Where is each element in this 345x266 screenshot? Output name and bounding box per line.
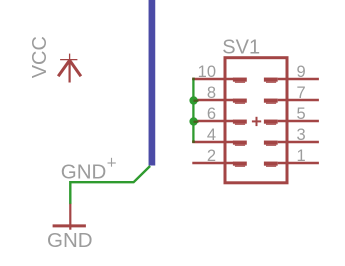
svg-text:VCC: VCC xyxy=(29,36,51,78)
pin 8 lead xyxy=(192,99,234,102)
wire GND net (from bus to ground) xyxy=(70,166,150,204)
ground symbol GND (pin) xyxy=(69,204,71,230)
svg-text:SV1: SV1 xyxy=(222,36,260,58)
pin 6 lead xyxy=(192,120,234,123)
svg-text:5: 5 xyxy=(297,105,306,123)
pin 9 pad xyxy=(264,78,278,82)
pin 1 lead xyxy=(278,162,319,165)
svg-text:10: 10 xyxy=(198,63,216,81)
wire-pin overlap corner (pin 10) xyxy=(192,78,195,81)
svg-text:8: 8 xyxy=(207,84,216,102)
svg-text:4: 4 xyxy=(207,126,216,144)
pin 5 pad xyxy=(264,120,278,124)
connector SV1 body xyxy=(225,58,287,183)
wire (green vertical tying pins 10-8-6-4) xyxy=(192,79,194,142)
net label origin cross xyxy=(108,158,116,167)
svg-text:9: 9 xyxy=(297,63,306,81)
junction dot (pin 8) xyxy=(189,96,197,104)
supply symbol VCC (arrow) xyxy=(58,54,81,83)
svg-text:GND: GND xyxy=(47,229,93,252)
svg-text:1: 1 xyxy=(297,147,306,165)
svg-text:2: 2 xyxy=(207,147,216,165)
pin 3 lead xyxy=(278,141,319,144)
pin 9 lead xyxy=(278,78,319,81)
pin 10 pad xyxy=(233,78,247,82)
pin 4 pad xyxy=(233,141,247,145)
pin 7 lead xyxy=(278,99,319,102)
svg-text:GND: GND xyxy=(61,160,107,183)
pin 3 pad xyxy=(264,141,278,145)
svg-text:7: 7 xyxy=(297,84,306,102)
svg-text:6: 6 xyxy=(207,105,216,123)
pin 2 pad xyxy=(233,162,247,166)
pin 6 pad xyxy=(233,120,247,124)
pin 4 lead xyxy=(192,141,234,144)
junction dot (pin 6) xyxy=(189,117,197,125)
polarity mark + xyxy=(252,117,261,126)
wire-pin overlap corner (pin 4) xyxy=(192,140,195,143)
svg-text:3: 3 xyxy=(297,126,306,144)
pin 8 pad xyxy=(233,99,247,103)
bus wire (vertical blue bus) xyxy=(149,0,156,166)
pin 5 lead xyxy=(278,120,319,123)
pin 2 lead xyxy=(192,162,234,165)
pin 10 lead xyxy=(192,78,234,81)
pin 1 pad xyxy=(264,162,278,166)
pin 7 pad xyxy=(264,99,278,103)
ground symbol GND (bar) xyxy=(53,224,86,227)
